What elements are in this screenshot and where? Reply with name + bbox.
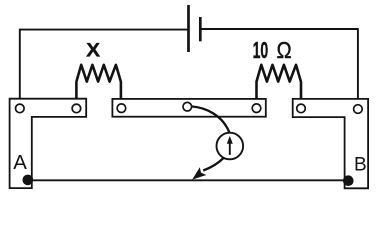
node B terminal dot <box>343 175 354 186</box>
metre bridge right copper strip (L-shape) with terminal B <box>293 99 368 188</box>
terminal circle (middle strip centre, galvanometer tap) <box>183 102 192 111</box>
terminal circle (middle strip right, 10-ohm left lead) <box>252 104 261 113</box>
wire left vertical drop <box>19 29 21 105</box>
wire top-right from battery to right corner <box>202 28 359 30</box>
terminal circle (left strip, X left lead) <box>72 104 81 113</box>
resistor X zigzag <box>76 65 121 104</box>
galvanometer needle arrow <box>229 142 231 155</box>
metre bridge middle copper strip <box>112 99 265 117</box>
terminal circle (right strip, battery wire) <box>354 105 363 114</box>
wire right vertical drop <box>357 28 359 105</box>
battery B1 short plate <box>199 17 202 41</box>
terminal circle (left strip, battery wire) <box>15 104 24 113</box>
galvanometer G circle <box>217 133 244 160</box>
svg-text:X: X <box>86 40 101 62</box>
metre bridge left copper strip (L-shape) with terminal A <box>10 99 87 188</box>
jockey arrowhead on wire AB <box>192 167 206 179</box>
battery B1 long plate <box>187 5 190 52</box>
terminal circle (right strip, 10-ohm right lead) <box>297 104 306 113</box>
terminal circle (middle strip left, X right lead) <box>117 104 126 113</box>
wire top-left from battery to left corner <box>20 29 188 31</box>
bottom bridge wire A to B <box>28 179 349 181</box>
resistor R2 10-ohm zigzag <box>257 65 302 104</box>
svg-text:10: 10 <box>253 37 269 63</box>
svg-text:A: A <box>13 152 27 174</box>
wire curve from galvanometer to jockey on wire AB <box>203 158 223 171</box>
svg-text:B: B <box>354 154 367 175</box>
wire curve from middle tap to galvanometer <box>191 106 229 132</box>
node A terminal dot <box>23 175 34 186</box>
svg-text:Ω: Ω <box>277 37 292 63</box>
